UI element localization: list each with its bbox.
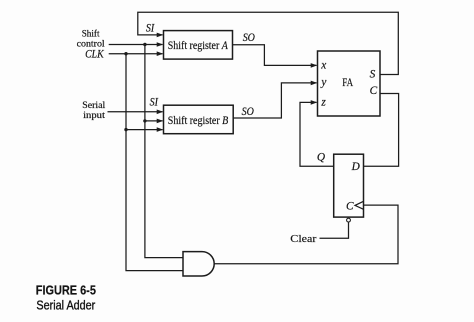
wire S output feedback to SI of A [138, 12, 399, 74]
svg-text:SI: SI [146, 23, 155, 35]
full adder FA [318, 51, 381, 116]
wire C output to D input [364, 94, 399, 167]
svg-text:D: D [351, 161, 360, 173]
arrowhead x input [311, 63, 318, 68]
svg-text:CLK: CLK [85, 48, 105, 60]
junction dot B bottom input [124, 128, 127, 131]
svg-text:input: input [83, 111, 105, 121]
wire branch to B bottom input [126, 129, 163, 131]
AND gate [183, 252, 214, 276]
arrowhead y input [311, 81, 318, 86]
arrowhead z input [311, 100, 318, 105]
svg-text:x: x [320, 60, 326, 72]
shift register A [164, 31, 233, 59]
svg-text:Serial Adder: Serial Adder [36, 297, 95, 312]
clock wedge [355, 201, 364, 209]
junction dot shift control [143, 43, 146, 46]
junction dot CLK [124, 52, 127, 55]
wire CLK [109, 53, 163, 55]
svg-text:Q: Q [317, 151, 325, 163]
label Shift control [77, 28, 105, 49]
svg-text:SI: SI [150, 97, 159, 109]
svg-text:Clear: Clear [290, 233, 316, 245]
svg-text:y: y [320, 77, 327, 89]
label Serial input [82, 101, 105, 121]
shift register B [164, 105, 234, 134]
wire serial input [108, 111, 163, 113]
wire SO of B to y input [233, 83, 316, 118]
svg-text:SO: SO [242, 106, 254, 118]
wire AND gate output to flip-flop clock [214, 205, 398, 264]
clear bubble [347, 218, 351, 222]
arrowhead CLK into A [157, 51, 164, 56]
svg-text:SO: SO [243, 32, 255, 44]
arrowhead shift control into A [157, 42, 164, 47]
svg-text:z: z [320, 96, 326, 108]
wire Clear [320, 222, 349, 238]
D flip-flop [334, 154, 364, 222]
arrowhead into B middle [157, 119, 164, 124]
wire CLK vertical to AND gate [126, 54, 183, 271]
svg-text:C: C [370, 85, 378, 97]
wire branch to B middle input [145, 120, 163, 122]
wire SO of A to x input [233, 45, 317, 66]
svg-text:FA: FA [342, 77, 353, 89]
svg-text:Shift register A: Shift register A [168, 38, 229, 52]
wire Q output to z input [300, 102, 334, 166]
arrowhead serial input into B [157, 110, 164, 115]
arrowhead SI of A [157, 33, 164, 38]
svg-text:Serial: Serial [82, 101, 105, 111]
arrowhead into B bottom [157, 127, 164, 132]
svg-text:S: S [370, 68, 376, 80]
wire shift control vertical to AND gate [145, 45, 183, 258]
svg-text:Shift: Shift [82, 28, 100, 39]
wire shift control [109, 44, 163, 46]
svg-text:FIGURE 6-5: FIGURE 6-5 [36, 283, 96, 298]
svg-text:Shift register B: Shift register B [168, 113, 229, 127]
junction dot B middle input [143, 119, 146, 122]
svg-text:C: C [346, 201, 354, 213]
